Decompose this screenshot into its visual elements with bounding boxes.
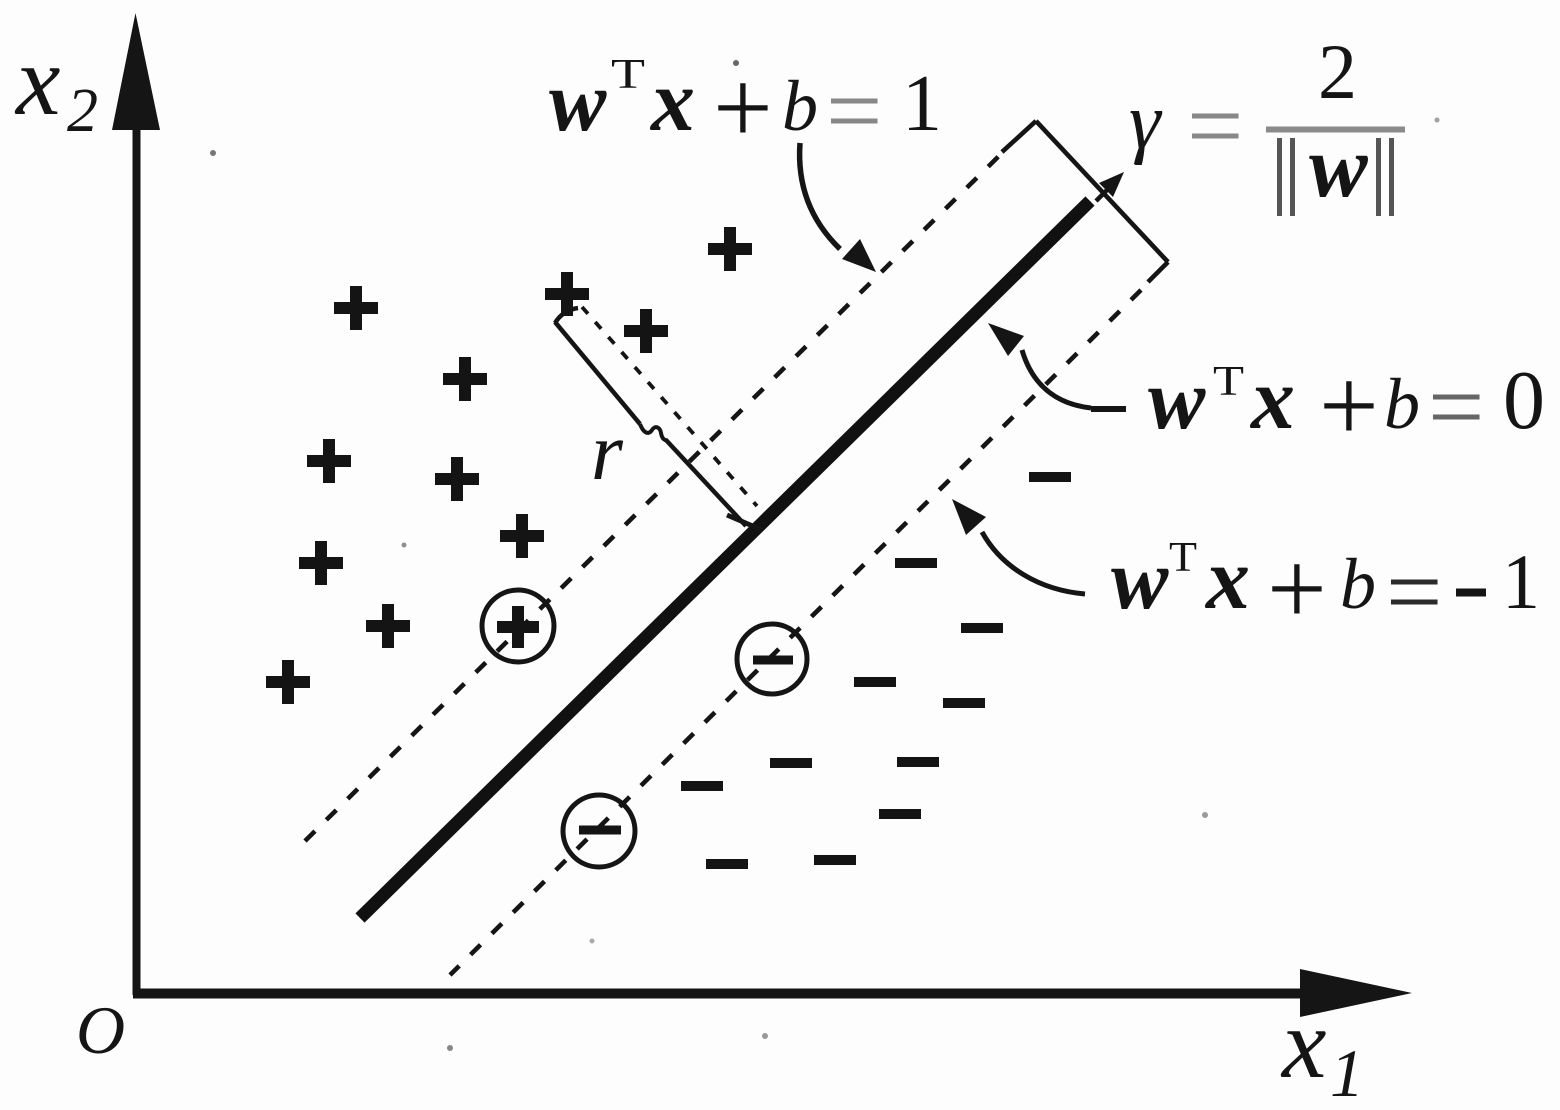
x2 axis arrowhead xyxy=(112,13,160,130)
minus point 3 xyxy=(961,623,1003,633)
svg-text:O: O xyxy=(76,992,125,1068)
svg-text:0: 0 xyxy=(1503,354,1545,447)
plus point 5 xyxy=(708,227,752,271)
minus point 11 xyxy=(814,855,856,865)
svg-text:x: x xyxy=(1249,351,1295,448)
svg-text:T: T xyxy=(1169,535,1197,581)
svg-text:=: = xyxy=(1428,351,1484,462)
plus point 2 xyxy=(443,357,487,401)
margin width bracket cap line xyxy=(1036,121,1168,262)
svg-text:x: x xyxy=(1204,531,1250,628)
circled minus support vector 2 xyxy=(563,795,635,867)
scan speck 6 xyxy=(590,939,595,944)
svg-text:=: = xyxy=(826,55,882,166)
plus point 11 xyxy=(266,660,310,704)
upper margin solid extension to bracket corner xyxy=(1002,121,1036,152)
svg-text:T: T xyxy=(611,52,645,98)
minus point 10 xyxy=(706,859,748,869)
plus point 7 xyxy=(435,457,479,501)
svg-text:b: b xyxy=(1384,364,1420,444)
minus point 5 xyxy=(943,698,985,708)
gamma tick arrow xyxy=(1096,172,1124,201)
x2 axis line xyxy=(133,120,141,995)
separating hyperplane w^T x + b = 0 (thick line) xyxy=(360,201,1090,918)
r measurement: solid perpendicular line lower part xyxy=(666,440,746,526)
minus point 8 xyxy=(681,781,723,791)
plus point 10 xyxy=(366,604,410,648)
plus point 3 (support point of r) xyxy=(545,272,589,316)
svg-text:w: w xyxy=(1111,531,1169,627)
lower margin solid extension from bracket corner xyxy=(1148,262,1168,282)
label w^T x + b = -1 xyxy=(1111,530,1540,647)
svg-text:b: b xyxy=(1340,544,1376,624)
minus point 2 xyxy=(895,558,937,568)
svg-text:+: + xyxy=(1319,347,1379,464)
plus point 6 xyxy=(307,439,351,483)
curved arrow from label to upper margin line xyxy=(800,143,876,272)
svg-text:w: w xyxy=(1148,351,1206,447)
x2 axis label xyxy=(14,25,98,145)
svg-text:w: w xyxy=(549,53,607,149)
svg-text:x: x xyxy=(14,25,60,136)
circled minus support vector 1 xyxy=(737,624,807,694)
svg-text:2: 2 xyxy=(1318,28,1357,115)
x1 axis line xyxy=(133,989,1303,999)
svg-text:=: = xyxy=(1187,70,1243,181)
r measurement: brace squiggle xyxy=(640,424,668,440)
plus point 1 xyxy=(334,286,378,330)
minus point 9 xyxy=(879,809,921,819)
scan speck 7 xyxy=(1435,118,1440,123)
scan speck 2 xyxy=(733,60,739,66)
plus markers (class +1) xyxy=(266,227,752,704)
x1 axis arrowhead xyxy=(1300,969,1412,1017)
svg-text:1: 1 xyxy=(902,60,942,148)
scan speck 3 xyxy=(447,1045,453,1051)
circled plus support vector xyxy=(482,590,554,662)
curved arrow from label to lower margin line xyxy=(952,499,1085,594)
scan speck 5 xyxy=(1202,812,1208,818)
lower margin dashed line w^T x + b = -1 xyxy=(450,290,1141,975)
minus point 1 xyxy=(1029,472,1071,482)
minus point 6 xyxy=(770,758,812,768)
label w^T x + b = 0 xyxy=(1091,347,1545,464)
svg-text:1: 1 xyxy=(1502,538,1540,625)
svg-text:x: x xyxy=(649,53,695,150)
svg-text:b: b xyxy=(782,66,818,146)
plus point 4 xyxy=(624,309,668,353)
svg-text:=: = xyxy=(1386,536,1442,647)
x1 axis label xyxy=(1280,988,1364,1110)
r measurement: top cap curl xyxy=(555,308,578,323)
r measurement: companion dashed perpendicular xyxy=(582,307,757,506)
minus point 7 xyxy=(897,757,939,767)
upper margin dashed line w^T x + b = 1 xyxy=(305,151,1004,841)
label w^T x + b = 1 xyxy=(549,49,942,166)
svg-text:x: x xyxy=(1280,988,1326,1099)
plus point 8 xyxy=(500,514,544,558)
svg-text:+: + xyxy=(713,49,773,166)
svg-text:+: + xyxy=(1267,530,1327,647)
scan speck 8 xyxy=(402,543,407,548)
plus point 9 xyxy=(299,541,343,585)
svg-text:r: r xyxy=(591,406,624,497)
minus point 4 xyxy=(854,677,896,687)
scan speck 4 xyxy=(762,1033,768,1039)
svg-text:w: w xyxy=(1309,119,1368,216)
scan speck 1 xyxy=(210,150,216,156)
r measurement: solid perpendicular line upper part xyxy=(555,322,640,424)
gamma = 2/||w|| label xyxy=(1129,28,1405,216)
svg-text:T: T xyxy=(1213,359,1244,405)
svg-text:2: 2 xyxy=(67,77,98,145)
svg-text:γ: γ xyxy=(1129,78,1163,166)
curved arrow from label to thick line xyxy=(988,323,1091,408)
minus markers (class -1) xyxy=(681,477,1071,864)
svg-text:1: 1 xyxy=(1330,1035,1364,1110)
r measurement: bottom foot cap xyxy=(727,515,762,530)
